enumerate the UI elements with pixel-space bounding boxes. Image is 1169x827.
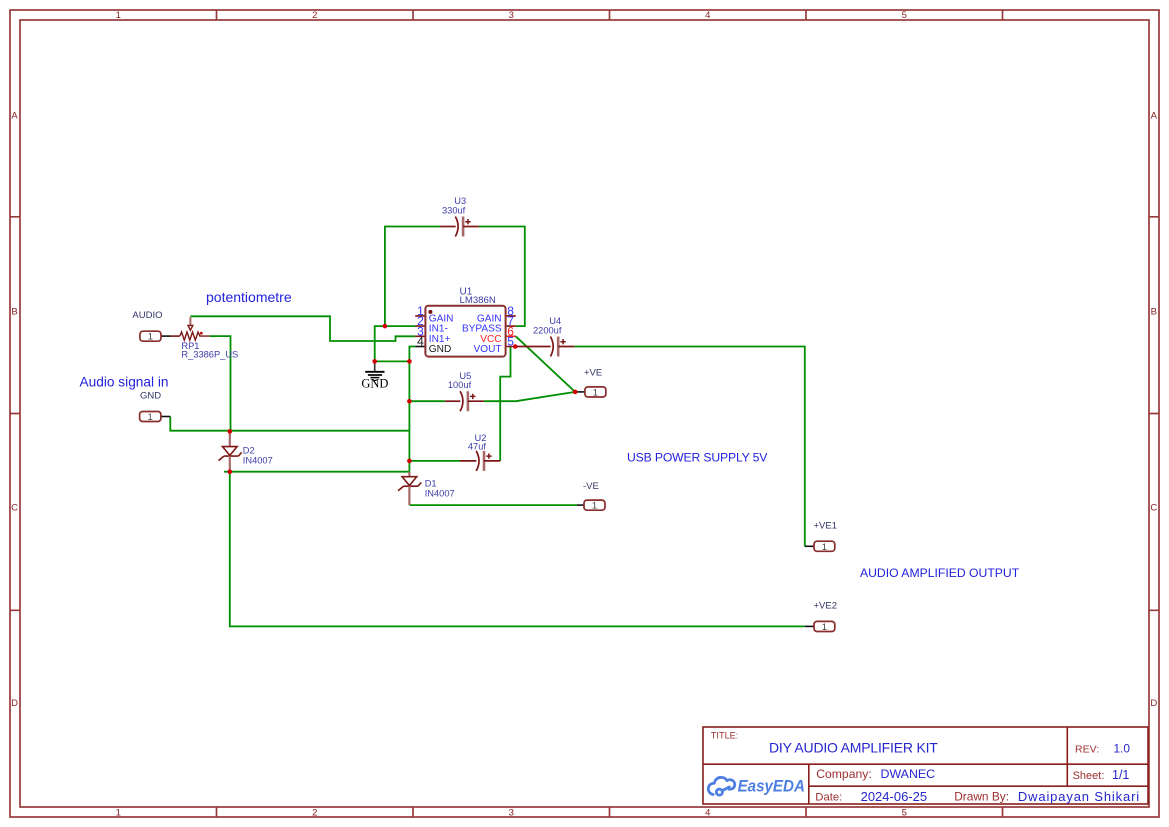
svg-text:1: 1 [592, 501, 597, 512]
wire U5 left [409, 400, 445, 402]
svg-text:5: 5 [902, 807, 907, 818]
wire VCC diagonal to +VE [516, 336, 575, 392]
EasyEDA logo [708, 777, 734, 795]
svg-text:R_3386P_US: R_3386P_US [181, 350, 238, 360]
node D2 anode junction [228, 429, 233, 434]
wire D1 to -VE [409, 504, 577, 506]
svg-text:4: 4 [705, 10, 710, 21]
wire D2 node to +VE2 [230, 472, 805, 627]
svg-text:D: D [11, 698, 18, 709]
wire VOUT to +VE1 [575, 347, 805, 547]
svg-text:3: 3 [509, 807, 514, 818]
svg-text:+VE2: +VE2 [814, 601, 838, 612]
svg-text:Company:: Company: [816, 767, 872, 781]
diode D1 [398, 472, 421, 505]
svg-text:1: 1 [148, 332, 153, 343]
svg-text:C: C [1150, 503, 1157, 514]
svg-text:1: 1 [116, 10, 121, 21]
potentiometer RP1 [171, 317, 210, 340]
wire GND connector to bus [170, 417, 409, 431]
svg-text:1: 1 [822, 622, 827, 633]
svg-text:AUDIO AMPLIFIED OUTPUT: AUDIO AMPLIFIED OUTPUT [860, 566, 1020, 580]
wire GND row [375, 360, 410, 362]
svg-text:D: D [1150, 698, 1157, 709]
svg-text:Sheet:: Sheet: [1073, 770, 1105, 782]
svg-text:1/1: 1/1 [1112, 768, 1129, 782]
svg-text:DWANEC: DWANEC [881, 767, 936, 781]
svg-text:330uf: 330uf [442, 205, 466, 215]
svg-text:2024-06-25: 2024-06-25 [861, 789, 928, 804]
capacitor U3 330uf [440, 217, 479, 237]
svg-text:1: 1 [593, 388, 598, 399]
node GND symbol junction [372, 359, 377, 364]
capacitor U4 2200uf [516, 337, 575, 357]
svg-text:4: 4 [417, 335, 424, 349]
connector P-VE [577, 500, 605, 512]
ground GND symbol [361, 361, 388, 390]
svg-text:+VE1: +VE1 [814, 521, 838, 532]
svg-text:USB POWER SUPPLY 5V: USB POWER SUPPLY 5V [627, 450, 768, 464]
svg-text:100uf: 100uf [448, 380, 472, 390]
node U2 row junction [407, 459, 412, 464]
svg-text:D2: D2 [243, 445, 255, 455]
svg-text:2: 2 [312, 807, 317, 818]
svg-text:VOUT: VOUT [474, 344, 502, 355]
svg-text:A: A [11, 111, 18, 122]
svg-text:C: C [11, 503, 18, 514]
svg-text:1.0: 1.0 [1114, 741, 1131, 755]
svg-text:2: 2 [312, 10, 317, 21]
wire U2 left [409, 460, 460, 462]
capacitor U5 100uf [445, 391, 484, 411]
svg-text:IN4007: IN4007 [243, 456, 273, 466]
svg-text:GND: GND [140, 390, 161, 401]
svg-text:IN4007: IN4007 [425, 489, 455, 499]
svg-text:1: 1 [148, 412, 153, 423]
node pin4/GND row junction [407, 359, 412, 364]
node U3/pin2 junction [383, 324, 388, 329]
svg-text:Dwaipayan Shikari: Dwaipayan Shikari [1018, 789, 1140, 804]
op-amp IC U1 LM386N [415, 304, 516, 357]
wire pot output down to D2 node [210, 336, 231, 431]
svg-text:Drawn By:: Drawn By: [954, 790, 1009, 804]
svg-text:1: 1 [116, 807, 121, 818]
connector P+VE2 [805, 621, 835, 633]
svg-text:-VE: -VE [583, 481, 599, 492]
wire U5 right diagonal to +VE [484, 392, 575, 401]
svg-text:LM386N: LM386N [460, 295, 496, 306]
svg-text:Audio signal in: Audio signal in [80, 374, 169, 389]
svg-text:TITLE:: TITLE: [711, 731, 739, 741]
JUNCTIONS [228, 324, 578, 474]
TITLEBLOCK [703, 727, 1148, 804]
svg-text:AUDIO: AUDIO [132, 310, 162, 321]
connector P+VE1 [805, 541, 835, 553]
svg-text:1: 1 [822, 542, 827, 553]
svg-text:+VE: +VE [584, 367, 602, 378]
node +VE junction [573, 390, 578, 395]
diode D2 [219, 431, 242, 471]
node D2 cathode junction [228, 469, 233, 474]
wire VOUT down to U2 [500, 347, 510, 461]
connector P-GNDIN [140, 412, 171, 424]
svg-text:REV:: REV: [1075, 743, 1099, 755]
wire pin4 GND down [409, 347, 415, 362]
connector P+VE [575, 387, 606, 399]
svg-text:47uf: 47uf [468, 442, 487, 452]
svg-text:B: B [1151, 307, 1157, 318]
wire main vertical bus [408, 361, 410, 471]
wire D2 bottom row [224, 471, 409, 473]
capacitor U2 47uf [460, 451, 500, 471]
svg-text:5: 5 [902, 10, 907, 21]
svg-text:3: 3 [509, 10, 514, 21]
svg-text:DIY AUDIO AMPLIFIER KIT: DIY AUDIO AMPLIFIER KIT [769, 739, 938, 755]
wire pot wiper to pin3 IN1+ [190, 316, 415, 341]
connector P-AUDIO [140, 331, 171, 343]
wire U3 right leg to pin7 BYPASS [479, 227, 525, 327]
svg-text:EasyEDA: EasyEDA [738, 777, 805, 796]
svg-text:Date:: Date: [815, 792, 842, 804]
wire U3 left leg [385, 227, 440, 327]
svg-text:GND: GND [429, 344, 451, 355]
svg-text:B: B [11, 307, 17, 318]
node U5 row junction [407, 399, 412, 404]
wire pin2 IN1- to GND node [375, 326, 416, 361]
node VOUT junction [513, 344, 518, 349]
svg-text:A: A [1151, 111, 1158, 122]
svg-text:2200uf: 2200uf [533, 325, 562, 335]
svg-text:D1: D1 [425, 479, 437, 489]
svg-text:potentiometre: potentiometre [206, 289, 292, 305]
svg-text:4: 4 [705, 807, 710, 818]
svg-text:GND: GND [361, 377, 388, 391]
